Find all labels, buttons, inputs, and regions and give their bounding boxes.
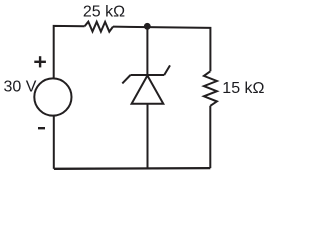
- svg-text:30 V: 30 V: [4, 78, 37, 95]
- wire right lower segment: [209, 106, 211, 168]
- zener diode D1 anode triangle: [132, 76, 164, 104]
- wire left upper segment: [54, 26, 85, 79]
- zener diode D1 cathode bar: [131, 74, 165, 76]
- zener diode D1 left bend tail: [122, 75, 130, 83]
- wire middle branch lower: [147, 104, 149, 169]
- wire middle branch upper: [146, 27, 148, 75]
- voltage source V1 circle: [34, 78, 71, 115]
- plus polarity mark: [34, 61, 46, 63]
- minus polarity mark: [38, 127, 45, 129]
- wire bottom segment: [54, 167, 210, 170]
- resistor R2 15 kOhm zigzag: [204, 71, 217, 106]
- resistor R1 25 kOhm zigzag: [85, 22, 113, 32]
- wire top right segment: [113, 27, 210, 72]
- wire left lower segment: [53, 116, 55, 169]
- svg-text:15 kΩ: 15 kΩ: [222, 80, 264, 97]
- zener diode D1 right bend tail: [164, 65, 170, 75]
- junction node dot: [144, 23, 151, 30]
- svg-text:25 kΩ: 25 kΩ: [83, 4, 125, 21]
